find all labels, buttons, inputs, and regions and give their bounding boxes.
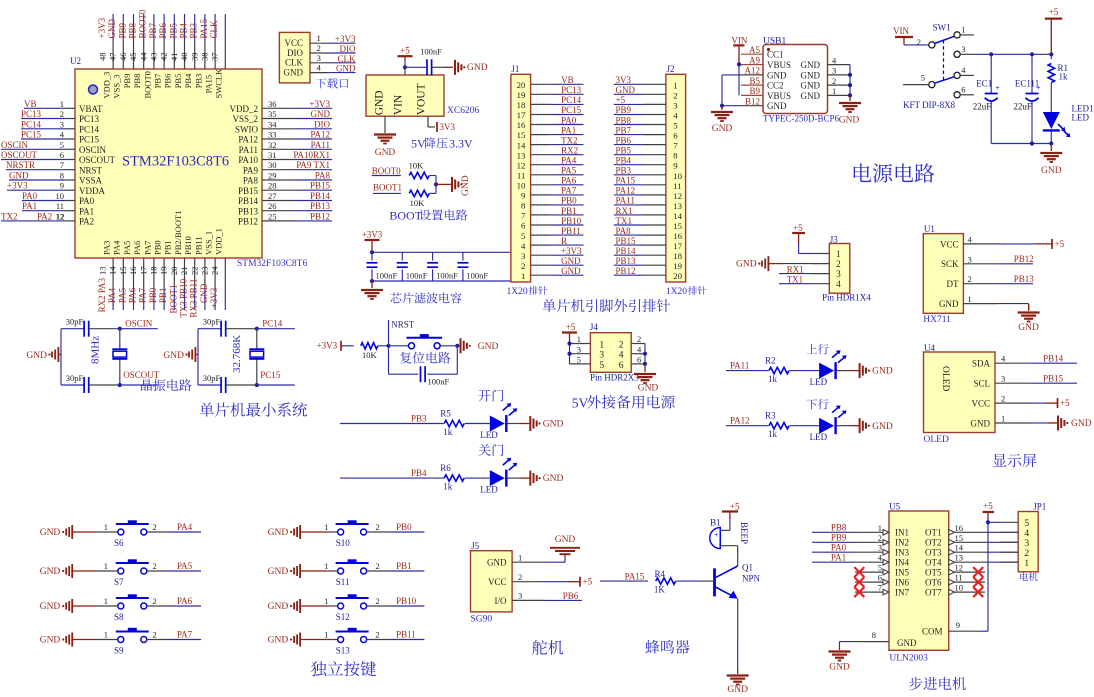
title mcu pin headers — [543, 299, 556, 312]
svg-text:8: 8 — [673, 151, 678, 161]
svg-text:TX3 PB10: TX3 PB10 — [179, 278, 189, 317]
svg-text:PB3: PB3 — [411, 413, 427, 423]
svg-text:5: 5 — [599, 361, 604, 371]
svg-text:2: 2 — [375, 630, 379, 640]
svg-text:11: 11 — [517, 170, 525, 180]
svg-text:PA1: PA1 — [561, 125, 576, 135]
svg-text:PA7: PA7 — [561, 186, 577, 196]
button reset — [389, 345, 409, 347]
svg-text:PC15: PC15 — [561, 105, 582, 115]
svg-text:PA0: PA0 — [22, 191, 38, 201]
svg-text:1: 1 — [104, 596, 108, 606]
svg-text:2: 2 — [153, 596, 157, 606]
svg-text:27: 27 — [268, 191, 277, 201]
svg-text:PB1: PB1 — [163, 240, 173, 255]
svg-text:3: 3 — [836, 270, 841, 280]
svg-text:GND: GND — [971, 418, 991, 428]
svg-text:PA11: PA11 — [730, 360, 749, 370]
svg-text:3: 3 — [521, 251, 526, 261]
mcu bottom pins 13-24 — [112, 258, 114, 288]
gnd — [644, 364, 646, 372]
svg-text:4: 4 — [673, 111, 678, 121]
svg-text:GND: GND — [872, 367, 893, 377]
title stepper motor — [909, 677, 922, 690]
resistor R2 1k — [769, 367, 789, 373]
svg-text:S8: S8 — [114, 612, 124, 622]
title power circuit — [854, 163, 872, 182]
gnd — [436, 183, 452, 185]
pin SCL PB15 — [995, 382, 1032, 384]
svg-text:PA1: PA1 — [22, 201, 37, 211]
wire gnd left — [722, 74, 741, 76]
svg-text:3: 3 — [1024, 539, 1029, 549]
svg-text:VCC: VCC — [284, 38, 303, 48]
svg-text:PB13: PB13 — [238, 206, 259, 216]
wire right — [644, 344, 646, 364]
svg-text:PA12: PA12 — [730, 416, 750, 426]
svg-text:22uF: 22uF — [973, 102, 992, 112]
svg-text:ULN2003: ULN2003 — [889, 654, 928, 664]
svg-text:13: 13 — [98, 267, 108, 276]
svg-text:22: 22 — [189, 267, 199, 276]
svg-text:GND: GND — [374, 90, 386, 115]
svg-text:PB10: PB10 — [396, 596, 417, 606]
pin I/O PB6 — [512, 599, 545, 601]
title xiazaikou — [316, 78, 326, 88]
svg-text:RX2 PA3: RX2 PA3 — [97, 277, 107, 312]
svg-text:SCK: SCK — [941, 259, 959, 269]
svg-text:PB6: PB6 — [158, 22, 168, 38]
svg-text:VIN: VIN — [731, 36, 747, 46]
title independent buttons — [311, 661, 327, 676]
svg-text:100nF: 100nF — [436, 271, 458, 281]
svg-text:U5: U5 — [889, 502, 900, 512]
svg-text:OSCOUT: OSCOUT — [79, 155, 116, 165]
wire to JP1 pin5 — [988, 521, 1000, 523]
svg-text:+5: +5 — [1049, 7, 1059, 17]
svg-text:PA1: PA1 — [79, 206, 94, 216]
capacitor 30pF bottom — [198, 384, 221, 386]
svg-text:7: 7 — [878, 583, 882, 593]
svg-text:1: 1 — [673, 80, 677, 90]
svg-text:14: 14 — [955, 543, 964, 553]
svg-text:PA10RX1: PA10RX1 — [293, 150, 330, 160]
svg-text:GND: GND — [336, 64, 356, 74]
svg-text:18: 18 — [149, 267, 159, 276]
gnd — [1050, 144, 1052, 152]
svg-text:2: 2 — [917, 37, 921, 47]
svg-text:CLK: CLK — [338, 54, 357, 64]
svg-text:SG90: SG90 — [471, 615, 493, 625]
net PA12 — [726, 425, 769, 427]
svg-text:GND: GND — [478, 342, 499, 352]
svg-text:GND: GND — [107, 19, 117, 39]
svg-text:VOUT: VOUT — [416, 83, 428, 115]
svg-text:VBUS: VBUS — [767, 60, 791, 70]
svg-text:A12: A12 — [745, 66, 761, 76]
svg-text:PA9 TX1: PA9 TX1 — [296, 160, 330, 170]
svg-text:PB13: PB13 — [1014, 274, 1035, 284]
svg-text:2: 2 — [153, 522, 157, 532]
svg-text:PB13: PB13 — [616, 256, 637, 266]
svg-text:3: 3 — [961, 44, 965, 54]
svg-text:GND: GND — [555, 535, 576, 545]
svg-text:1: 1 — [599, 341, 604, 351]
svg-text:+3V3: +3V3 — [309, 99, 330, 109]
svg-text:2: 2 — [518, 572, 522, 582]
svg-text:15: 15 — [673, 221, 682, 231]
svg-text:5: 5 — [673, 121, 678, 131]
filter cap rails — [372, 251, 521, 253]
svg-text:4: 4 — [836, 280, 841, 290]
svg-text:+5: +5 — [583, 577, 593, 587]
svg-text:7: 7 — [521, 211, 526, 221]
svg-text:PB4: PB4 — [616, 156, 632, 166]
svg-text:PB15: PB15 — [1043, 373, 1064, 383]
svg-text:RX3 PB11: RX3 PB11 — [189, 279, 199, 318]
svg-text:PB11: PB11 — [396, 630, 416, 640]
svg-text:3: 3 — [1001, 374, 1005, 384]
svg-text:PC13: PC13 — [561, 85, 582, 95]
svg-text:Pin HDR2X3: Pin HDR2X3 — [590, 373, 639, 383]
wire vbus — [737, 62, 741, 66]
svg-text:PC15: PC15 — [21, 130, 42, 140]
svg-text:GND: GND — [712, 124, 733, 134]
resistor R4 1K — [656, 578, 676, 584]
svg-text:VSS_3: VSS_3 — [112, 74, 122, 98]
svg-text:PA12: PA12 — [310, 130, 330, 140]
capacitor 30pF bottom — [61, 384, 84, 386]
svg-text:CLK: CLK — [209, 20, 219, 39]
svg-text:39: 39 — [189, 53, 199, 62]
svg-text:2: 2 — [619, 341, 624, 351]
svg-text:J2: J2 — [667, 64, 675, 74]
svg-text:100nF: 100nF — [376, 271, 398, 281]
svg-text:12: 12 — [517, 160, 526, 170]
svg-text:Pin HDR1X4: Pin HDR1X4 — [822, 293, 871, 303]
svg-text:VCC: VCC — [940, 239, 959, 249]
svg-text:30: 30 — [268, 160, 277, 170]
svg-text:34: 34 — [268, 119, 277, 129]
svg-text:6: 6 — [637, 355, 641, 365]
svg-text:PC13: PC13 — [79, 114, 100, 124]
capacitor 100nF — [432, 252, 434, 260]
svg-text:1: 1 — [104, 630, 108, 640]
svg-text:IN3: IN3 — [895, 548, 909, 558]
svg-text:16: 16 — [128, 267, 138, 276]
svg-text:1X20: 1X20 — [666, 287, 687, 297]
svg-text:6: 6 — [878, 573, 882, 583]
svg-text:GND: GND — [1041, 166, 1062, 176]
svg-text:PB10: PB10 — [183, 236, 193, 255]
power +3V3 — [365, 239, 380, 241]
gnd — [711, 111, 733, 113]
svg-text:PB14: PB14 — [310, 191, 331, 201]
resistor R1 1k — [1050, 54, 1052, 59]
svg-text:GND: GND — [26, 351, 47, 361]
svg-text:2: 2 — [1001, 394, 1005, 404]
connector download port — [279, 32, 310, 83]
svg-text:PB1: PB1 — [561, 206, 577, 216]
svg-text:JP1: JP1 — [1033, 502, 1046, 512]
svg-text:8MHz: 8MHz — [89, 336, 101, 364]
svg-text:OSCIN: OSCIN — [79, 145, 107, 155]
svg-text:8: 8 — [521, 201, 526, 211]
svg-text:VSSA: VSSA — [79, 176, 103, 186]
svg-text:OT1: OT1 — [925, 528, 942, 538]
svg-text:S13: S13 — [336, 646, 351, 656]
svg-text:PA11: PA11 — [311, 140, 330, 150]
svg-text:LED: LED — [1072, 113, 1090, 123]
svg-text:TX2: TX2 — [1, 211, 18, 221]
svg-text:KFT DIP-8X8: KFT DIP-8X8 — [903, 100, 956, 110]
svg-text:PB1: PB1 — [396, 561, 412, 571]
svg-text:PB12: PB12 — [238, 217, 258, 227]
title reset circuit — [400, 352, 411, 364]
svg-text:VBUS: VBUS — [767, 91, 791, 101]
title — [478, 444, 490, 456]
LED — [490, 470, 505, 486]
svg-text:11: 11 — [673, 181, 681, 191]
svg-text:6: 6 — [60, 150, 64, 160]
svg-text:42: 42 — [159, 53, 169, 62]
svg-text:5V: 5V — [411, 137, 426, 151]
svg-text:GND: GND — [543, 420, 564, 430]
pin VCC +5 — [995, 402, 1032, 404]
svg-text:BOOT0: BOOT0 — [138, 9, 148, 38]
mcu U2 STM32F103C8T6 — [75, 69, 262, 258]
svg-text:OSCIN: OSCIN — [1, 140, 29, 150]
svg-text:17: 17 — [517, 110, 526, 120]
svg-text:PB6: PB6 — [616, 135, 632, 145]
svg-text:PB14: PB14 — [238, 196, 259, 206]
pin DT PB13 — [963, 283, 998, 285]
svg-text:Q1: Q1 — [742, 563, 753, 573]
svg-text:B9: B9 — [749, 86, 760, 96]
svg-text:1: 1 — [968, 294, 972, 304]
mcu top pins 48-37 — [112, 14, 114, 40]
svg-text:PB14: PB14 — [1043, 353, 1064, 363]
svg-text:2: 2 — [1024, 549, 1029, 559]
svg-text:PB9: PB9 — [122, 74, 132, 89]
svg-text:PB14: PB14 — [616, 246, 637, 256]
svg-text:44: 44 — [138, 52, 148, 61]
net NRST — [386, 344, 390, 348]
svg-text:30pF: 30pF — [203, 317, 221, 327]
capacitor 100nF — [371, 252, 373, 260]
svg-text:PC15: PC15 — [79, 135, 100, 145]
svg-text:LED: LED — [480, 430, 498, 440]
svg-text:19: 19 — [517, 90, 526, 100]
svg-text:S11: S11 — [336, 577, 350, 587]
svg-text:3: 3 — [60, 119, 64, 129]
svg-text:+3V3: +3V3 — [317, 341, 338, 351]
svg-text:BEEP: BEEP — [739, 522, 749, 544]
svg-text:OSCIN: OSCIN — [125, 319, 153, 329]
svg-text:10K: 10K — [362, 350, 378, 360]
svg-text:VB: VB — [24, 99, 37, 109]
svg-text:+: + — [995, 84, 1000, 93]
svg-text:1k: 1k — [443, 482, 453, 492]
svg-text:12: 12 — [955, 563, 964, 573]
svg-text:LED: LED — [480, 485, 498, 495]
svg-text:GND: GND — [487, 558, 507, 568]
gnd — [859, 418, 861, 433]
no-connect X — [973, 567, 983, 577]
power +5 — [398, 55, 413, 57]
svg-text:J4: J4 — [590, 322, 599, 332]
svg-text:PA15: PA15 — [625, 572, 645, 582]
svg-text:2: 2 — [317, 43, 321, 53]
svg-text:+: + — [714, 531, 719, 540]
wire rails — [197, 329, 199, 385]
svg-text:PA4: PA4 — [112, 240, 122, 255]
wire main rail — [975, 53, 1052, 55]
svg-text:PA0: PA0 — [561, 115, 577, 125]
svg-text:3V3: 3V3 — [440, 122, 456, 132]
svg-text:VDDA: VDDA — [79, 186, 105, 196]
svg-text:2: 2 — [968, 274, 972, 284]
svg-text:PB8: PB8 — [616, 115, 632, 125]
svg-text:GND: GND — [199, 283, 209, 303]
svg-text:OLED: OLED — [924, 435, 949, 445]
pin VCC to +5 — [963, 243, 998, 245]
svg-text:10K: 10K — [410, 198, 426, 208]
gnd — [1057, 416, 1059, 431]
pin SDA PB14 — [995, 362, 1032, 364]
svg-text:PA7: PA7 — [142, 241, 152, 255]
svg-text:+3V3: +3V3 — [209, 287, 219, 308]
LED — [490, 416, 505, 432]
svg-text:5: 5 — [1024, 519, 1029, 529]
svg-text:PB2/BOOT1: PB2/BOOT1 — [173, 211, 183, 255]
svg-text:PC14: PC14 — [21, 119, 42, 129]
svg-text:PA6: PA6 — [132, 241, 142, 255]
svg-text:4: 4 — [1024, 529, 1029, 539]
svg-text:16: 16 — [955, 523, 964, 533]
svg-text:35: 35 — [268, 109, 277, 119]
svg-text:GND: GND — [767, 101, 787, 111]
svg-text:100nF: 100nF — [406, 271, 428, 281]
svg-text:I/O: I/O — [495, 596, 507, 606]
svg-text:PA0: PA0 — [79, 196, 95, 206]
node 3V3 out — [427, 116, 429, 127]
gnd — [384, 116, 386, 133]
svg-text:R: R — [561, 236, 567, 246]
svg-text:R6: R6 — [440, 463, 451, 473]
svg-text:B5: B5 — [749, 76, 760, 86]
svg-text:3: 3 — [577, 344, 581, 354]
svg-text:BOOT1: BOOT1 — [168, 285, 178, 314]
svg-text:S12: S12 — [336, 612, 350, 622]
svg-text:4: 4 — [961, 65, 966, 75]
svg-text:PC13: PC13 — [21, 109, 42, 119]
svg-text:NRST: NRST — [391, 320, 415, 330]
svg-text:PA5: PA5 — [177, 561, 193, 571]
regulator XC6206 — [366, 75, 444, 116]
svg-text:PB8: PB8 — [831, 523, 847, 533]
svg-text:3V3: 3V3 — [616, 75, 632, 85]
svg-text:1: 1 — [878, 523, 882, 533]
svg-text:PA2: PA2 — [37, 211, 52, 221]
gnd — [445, 66, 453, 68]
wire left — [569, 344, 571, 364]
svg-text:PB4: PB4 — [179, 22, 189, 38]
svg-text:30pF: 30pF — [66, 317, 84, 327]
svg-text:19: 19 — [673, 261, 682, 271]
svg-text:PA3: PA3 — [102, 241, 112, 255]
svg-text:PB15: PB15 — [310, 181, 331, 191]
svg-text:16: 16 — [673, 231, 682, 241]
svg-text:2: 2 — [673, 90, 677, 100]
svg-text:OT5: OT5 — [925, 567, 942, 577]
svg-text:PB9: PB9 — [117, 22, 127, 38]
svg-text:6: 6 — [673, 131, 678, 141]
svg-text:OSCOUT: OSCOUT — [1, 150, 38, 160]
svg-text:BOOT0: BOOT0 — [142, 71, 152, 98]
svg-text:7: 7 — [673, 141, 678, 151]
svg-text:RX1: RX1 — [616, 206, 633, 216]
svg-text:18: 18 — [673, 251, 682, 261]
svg-text:VCC: VCC — [971, 399, 990, 409]
svg-text:2: 2 — [153, 630, 157, 640]
capacitor EC111 22uF — [1031, 54, 1033, 93]
svg-text:R3: R3 — [765, 411, 776, 421]
svg-text:PA6: PA6 — [128, 287, 138, 303]
svg-text:38: 38 — [200, 53, 210, 62]
svg-text:PB12: PB12 — [310, 211, 330, 221]
svg-text:R4: R4 — [655, 569, 666, 579]
svg-text:R2: R2 — [765, 355, 776, 365]
svg-text:14: 14 — [517, 140, 526, 150]
svg-text:4: 4 — [521, 241, 526, 251]
svg-text:13: 13 — [673, 201, 682, 211]
svg-text:+3V3: +3V3 — [561, 246, 582, 256]
svg-text:LED: LED — [810, 432, 828, 442]
svg-text:11: 11 — [955, 573, 963, 583]
svg-text:1: 1 — [324, 561, 328, 571]
svg-text:13: 13 — [955, 553, 964, 563]
svg-text:S6: S6 — [114, 538, 124, 548]
svg-text:40: 40 — [179, 53, 189, 62]
svg-text:2: 2 — [637, 334, 641, 344]
svg-text:PB3: PB3 — [616, 166, 632, 176]
svg-text:IN7: IN7 — [895, 587, 909, 597]
svg-text:GND: GND — [40, 636, 61, 646]
svg-text:TX1: TX1 — [616, 216, 633, 226]
svg-text:6: 6 — [521, 221, 526, 231]
net PB3 — [340, 423, 444, 425]
svg-text:32.768K: 32.768K — [231, 335, 243, 373]
svg-text:PB9: PB9 — [616, 105, 632, 115]
svg-text:PA5: PA5 — [122, 241, 132, 255]
svg-text:PA9: PA9 — [243, 165, 259, 175]
svg-text:PB3: PB3 — [193, 74, 203, 89]
svg-text:5: 5 — [878, 563, 882, 573]
svg-text:OSCOUT: OSCOUT — [123, 370, 160, 380]
svg-text:PA5: PA5 — [561, 166, 577, 176]
svg-text:3: 3 — [317, 53, 322, 63]
svg-text:GND: GND — [284, 67, 304, 77]
svg-text:GND: GND — [767, 70, 787, 80]
svg-text:GND: GND — [461, 175, 471, 196]
svg-text:24: 24 — [210, 266, 220, 275]
svg-text:PA7: PA7 — [138, 287, 148, 303]
svg-text:GND: GND — [40, 602, 61, 612]
svg-text:GND: GND — [801, 91, 821, 101]
svg-text:PA2: PA2 — [79, 217, 94, 227]
svg-text:12: 12 — [673, 191, 682, 201]
